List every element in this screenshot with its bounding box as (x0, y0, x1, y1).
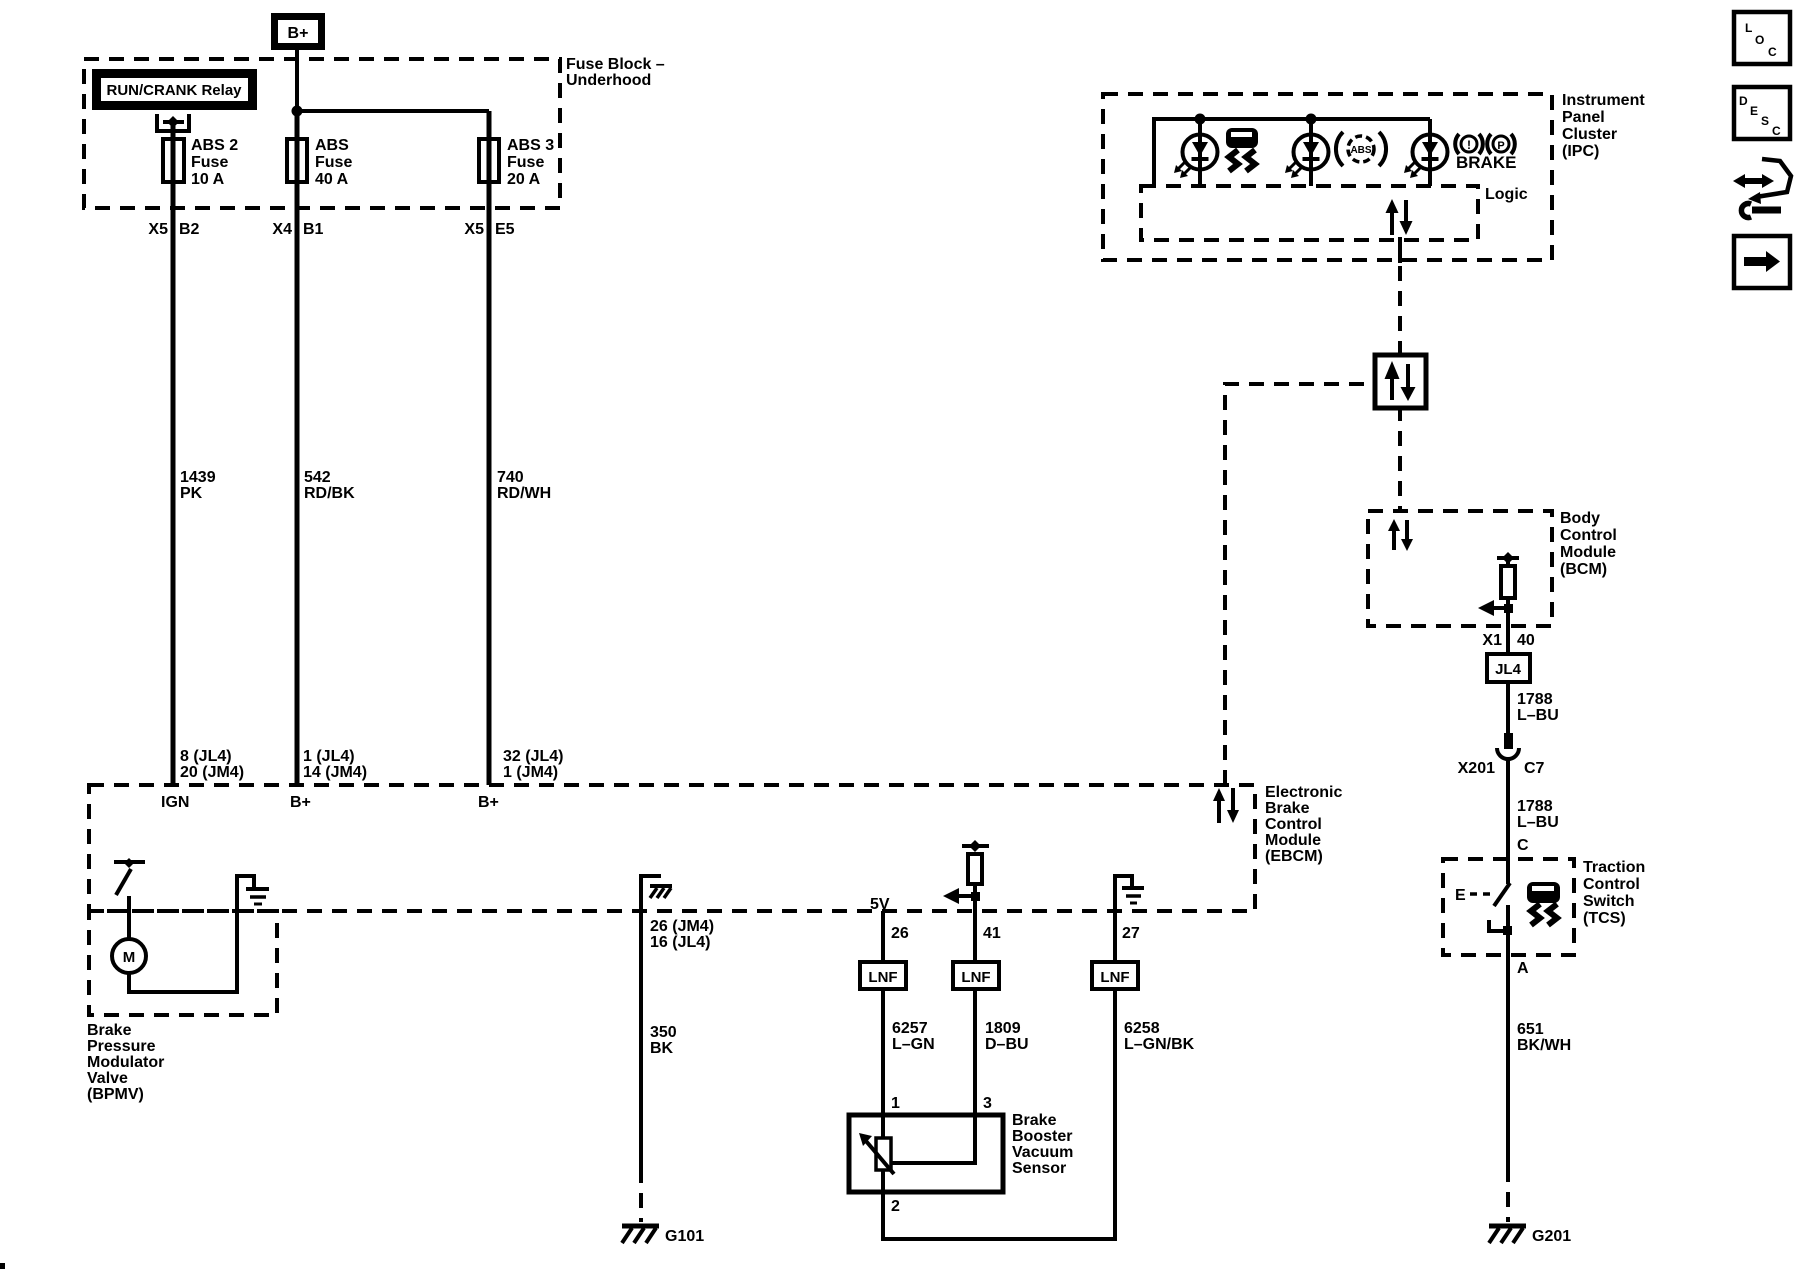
wire B+ feed into fuse block (295, 50, 299, 111)
ground G201 (1489, 1226, 1571, 1245)
wire JL4 to connector (1506, 682, 1510, 735)
svg-text:X4: X4 (272, 221, 292, 238)
svg-text:Instrument: Instrument (1562, 92, 1645, 109)
svg-text:Fuse: Fuse (191, 154, 228, 171)
wire pin 26 (881, 911, 885, 962)
BCM box (1368, 511, 1552, 626)
svg-text:D–BU: D–BU (985, 1036, 1029, 1053)
Logic box (1141, 186, 1478, 240)
svg-text:L–GN: L–GN (892, 1036, 935, 1053)
wire label 542 RD/BK (304, 469, 355, 502)
option box LNF (2) (953, 962, 999, 989)
EBCM 5V reference resistor (943, 840, 989, 911)
svg-text:Switch: Switch (1583, 893, 1635, 910)
svg-text:ABS: ABS (315, 137, 349, 154)
svg-text:Booster: Booster (1012, 1128, 1072, 1145)
earth ground (EBCM internal) (246, 889, 269, 904)
svg-text:40 A: 40 A (315, 171, 349, 188)
svg-text:ABS 3: ABS 3 (507, 137, 554, 154)
forward arrow box (1734, 236, 1790, 288)
svg-text:ABS 2: ABS 2 (191, 137, 238, 154)
LED indicator (traction) (1174, 119, 1218, 186)
svg-text:26: 26 (891, 925, 909, 942)
svg-text:Fuse Block –: Fuse Block – (566, 56, 665, 73)
svg-text:1788: 1788 (1517, 798, 1553, 815)
svg-text:Fuse: Fuse (315, 154, 352, 171)
option box LNF (1) (860, 962, 906, 989)
pin label 26 (JM4) 16 (JL4) (650, 918, 714, 951)
skid icon (IPC) (1226, 128, 1258, 171)
wire pin 41 (973, 911, 977, 962)
svg-text:C: C (1768, 45, 1777, 59)
pin labels X4 B1 (272, 221, 323, 238)
TCS label (1583, 859, 1645, 927)
svg-text:D: D (1739, 94, 1748, 108)
EBCM label (1265, 784, 1342, 865)
svg-text:20 (JM4): 20 (JM4) (180, 764, 244, 781)
junction node (1306, 114, 1317, 125)
fuse ABS 40A (287, 137, 352, 188)
LOC reference box (1734, 12, 1790, 64)
svg-text:Brake: Brake (1012, 1112, 1057, 1129)
wire label 1439 PK (180, 469, 216, 502)
svg-text:Logic: Logic (1485, 186, 1528, 203)
EBCM box (89, 785, 1255, 911)
svg-text:BRAKE: BRAKE (1456, 153, 1516, 172)
svg-text:LNF: LNF (868, 969, 897, 986)
fuse block underhood box (84, 59, 560, 208)
svg-text:B+: B+ (290, 794, 311, 811)
IPC box (1103, 94, 1552, 260)
BPMV motor M (112, 939, 146, 973)
sensor label (1012, 1112, 1073, 1177)
wire label 6258 L-GN/BK (1124, 1020, 1195, 1053)
BPMV switch inside EBCM (114, 858, 145, 895)
pin labels X1 40 (1482, 632, 1534, 649)
svg-text:BK: BK (650, 1040, 674, 1057)
DESC reference box (1734, 87, 1790, 139)
svg-text:350: 350 (650, 1024, 677, 1041)
fuse ABS 2 10A (163, 137, 238, 188)
svg-text:A: A (1517, 960, 1529, 977)
svg-text:651: 651 (1517, 1021, 1544, 1038)
svg-text:5V: 5V (870, 896, 890, 913)
LED indicator (ABS) (1285, 119, 1329, 186)
wire branch to ABS 3 fuse (297, 109, 489, 113)
svg-text:Valve: Valve (87, 1070, 128, 1087)
option box LNF (3) (1092, 962, 1138, 989)
wire label 1788 L-BU (1517, 798, 1559, 831)
node junction on B+ wire (292, 106, 303, 117)
svg-text:O: O (1755, 33, 1764, 47)
svg-text:Fuse: Fuse (507, 154, 544, 171)
svg-text:Module: Module (1265, 832, 1321, 849)
svg-text:Pressure: Pressure (87, 1038, 156, 1055)
svg-text:RD/BK: RD/BK (304, 485, 355, 502)
svg-text:G201: G201 (1532, 1228, 1571, 1245)
svg-text:PK: PK (180, 485, 203, 502)
svg-text:Cluster: Cluster (1562, 126, 1617, 143)
svg-text:(EBCM): (EBCM) (1265, 848, 1323, 865)
svg-text:S: S (1761, 114, 1769, 128)
svg-text:Traction: Traction (1583, 859, 1645, 876)
EBCM serial data arrows (1213, 788, 1239, 823)
BPMV box (89, 911, 277, 1015)
svg-text:JL4: JL4 (1495, 661, 1522, 678)
label Fuse Block - Underhood (566, 56, 665, 89)
splice pack JL4 (1487, 654, 1530, 682)
svg-text:10 A: 10 A (191, 171, 225, 188)
svg-text:20 A: 20 A (507, 171, 541, 188)
svg-text:8 (JL4): 8 (JL4) (180, 748, 232, 765)
svg-text:740: 740 (497, 469, 524, 486)
svg-text:Sensor: Sensor (1012, 1160, 1066, 1177)
svg-text:RD/WH: RD/WH (497, 485, 551, 502)
ground wire 350 BK (639, 911, 643, 1168)
svg-text:B+: B+ (288, 25, 309, 42)
wire dashed to ground G201 (1506, 1167, 1510, 1222)
svg-text:X201: X201 (1458, 760, 1495, 777)
BPMV label (87, 1022, 164, 1103)
svg-text:RUN/CRANK Relay: RUN/CRANK Relay (106, 82, 242, 99)
svg-text:41: 41 (983, 925, 1001, 942)
relay contact symbol (155, 114, 191, 131)
wire label 651 BK/WH (1517, 1021, 1571, 1054)
brake warning icons ((!))((P)) BRAKE (1455, 134, 1516, 172)
svg-text:1439: 1439 (180, 469, 216, 486)
svg-text:X1: X1 (1482, 632, 1502, 649)
svg-text:1 (JM4): 1 (JM4) (503, 764, 558, 781)
svg-text:ABS: ABS (1350, 145, 1371, 156)
svg-text:3: 3 (983, 1095, 992, 1112)
svg-text:Control: Control (1583, 876, 1640, 893)
svg-text:27: 27 (1122, 925, 1140, 942)
serial data box (1375, 355, 1426, 408)
svg-text:40: 40 (1517, 632, 1535, 649)
svg-text:P: P (1497, 140, 1504, 152)
LED indicator (brake) (1404, 119, 1448, 186)
svg-text:32 (JL4): 32 (JL4) (503, 748, 563, 765)
svg-text:L: L (1745, 21, 1752, 35)
svg-text:BK/WH: BK/WH (1517, 1037, 1571, 1054)
TCS switch contacts (1455, 883, 1512, 935)
svg-text:6257: 6257 (892, 1020, 928, 1037)
svg-text:1 (JL4): 1 (JL4) (303, 748, 355, 765)
BCM label (1560, 510, 1617, 578)
svg-text:(BCM): (BCM) (1560, 561, 1607, 578)
RUN/CRANK Relay (92, 69, 257, 110)
svg-text:14 (JM4): 14 (JM4) (303, 764, 367, 781)
svg-text:2: 2 (891, 1198, 900, 1215)
logic serial arrows (1386, 199, 1413, 235)
wire LNF1 to sensor pin 1 (881, 989, 885, 1138)
serial data wire (dashed) EBCM to splice box (1225, 384, 1376, 785)
svg-text:6258: 6258 (1124, 1020, 1160, 1037)
svg-text:Brake: Brake (1265, 800, 1310, 817)
svg-text:Module: Module (1560, 544, 1616, 561)
svg-text:C: C (1772, 124, 1781, 138)
wire E5 feed down (487, 111, 492, 785)
EBCM ground pin hook (641, 876, 672, 911)
brake booster vacuum sensor box (849, 1115, 1003, 1192)
svg-text:Underhood: Underhood (566, 72, 651, 89)
svg-text:E: E (1750, 104, 1758, 118)
svg-text:C7: C7 (1524, 760, 1545, 777)
EBCM sensor ground hook (1115, 876, 1144, 911)
ground G101 (622, 1226, 704, 1245)
wire label 1809 D-BU (985, 1020, 1029, 1053)
svg-text:L–BU: L–BU (1517, 707, 1559, 724)
junction node (1195, 114, 1206, 125)
pin label 32 (JL4) 1 (JM4) (503, 748, 563, 781)
svg-text:Body: Body (1560, 510, 1600, 527)
svg-text:LNF: LNF (1100, 969, 1129, 986)
fuse ABS 3 20A (479, 137, 554, 188)
diagram navigation icon (1733, 159, 1791, 218)
svg-text:Panel: Panel (1562, 109, 1605, 126)
svg-text:Brake: Brake (87, 1022, 132, 1039)
wire sensor pin 2 return loop (883, 989, 1115, 1239)
svg-text:Control: Control (1265, 816, 1322, 833)
svg-text:E5: E5 (495, 221, 515, 238)
B+ power terminal (271, 13, 325, 50)
svg-text:IGN: IGN (161, 794, 189, 811)
svg-text:(TCS): (TCS) (1583, 910, 1626, 927)
svg-text:542: 542 (304, 469, 331, 486)
svg-text:Modulator: Modulator (87, 1054, 164, 1071)
potentiometer (859, 1133, 894, 1192)
svg-text:1: 1 (891, 1095, 900, 1112)
svg-text:B1: B1 (303, 221, 324, 238)
wire dashed to ground G101 (639, 1168, 643, 1222)
pin label 1 (JL4) 14 (JM4) (303, 748, 367, 781)
svg-text:L–BU: L–BU (1517, 814, 1559, 831)
svg-text:X5: X5 (464, 221, 484, 238)
svg-text:C: C (1517, 837, 1529, 854)
pin label 8 (JL4) 20 (JM4) (180, 748, 244, 781)
skid icon (TCS) (1527, 882, 1560, 925)
wire connector to TCS (1506, 758, 1510, 884)
wire motor to ground point (129, 876, 254, 992)
svg-text:1809: 1809 (985, 1020, 1021, 1037)
svg-text:E: E (1455, 887, 1466, 904)
svg-text:16 (JL4): 16 (JL4) (650, 934, 710, 951)
wire B1 feed down (295, 111, 300, 785)
svg-text:L–GN/BK: L–GN/BK (1124, 1036, 1195, 1053)
TCS box (1443, 859, 1574, 955)
svg-text:!: ! (1467, 138, 1471, 152)
connector X201 C7 (1458, 733, 1545, 777)
svg-text:Control: Control (1560, 527, 1617, 544)
wire label 740 RD/WH (497, 469, 551, 502)
IPC label (1562, 92, 1645, 160)
svg-text:LNF: LNF (961, 969, 990, 986)
svg-text:M: M (123, 949, 136, 966)
wire IGN feed down (171, 122, 176, 785)
wire label 1788 L-BU (1517, 691, 1559, 724)
wire TCS lower contact down (1506, 905, 1510, 1167)
svg-text:B+: B+ (478, 794, 499, 811)
serial data wire up to IPC (1398, 262, 1402, 356)
serial data wire down to BCM (1398, 406, 1402, 511)
svg-text:26 (JM4): 26 (JM4) (650, 918, 714, 935)
wire label 350 BK (650, 1024, 677, 1057)
svg-text:B2: B2 (179, 221, 200, 238)
BCM output driver (1478, 552, 1519, 654)
page mark (0, 1263, 5, 1269)
ABS warning icon (1336, 132, 1386, 166)
BCM serial arrows (1388, 519, 1413, 551)
svg-text:Electronic: Electronic (1265, 784, 1342, 801)
pin labels X5 E5 (464, 221, 514, 238)
wire switch to motor (127, 896, 131, 940)
wire pin 27 (1113, 911, 1117, 962)
svg-text:Vacuum: Vacuum (1012, 1144, 1073, 1161)
wire label 6257 L-GN (892, 1020, 935, 1053)
svg-text:G101: G101 (665, 1228, 704, 1245)
pin labels X5 B2 (148, 221, 199, 238)
svg-text:X5: X5 (148, 221, 168, 238)
wire LNF2 to sensor pin 3 (890, 989, 975, 1163)
svg-text:(IPC): (IPC) (1562, 143, 1599, 160)
svg-text:1788: 1788 (1517, 691, 1553, 708)
IPC bus wire (1154, 119, 1430, 186)
svg-text:(BPMV): (BPMV) (87, 1086, 144, 1103)
